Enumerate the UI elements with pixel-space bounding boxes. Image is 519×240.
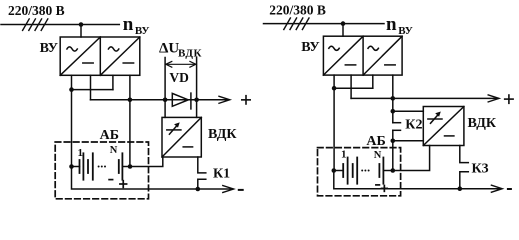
wire: ВУ output stub 4 down to battery plus (left) bbox=[129, 75, 131, 166]
rectifier ВУ (right): two-section box bbox=[323, 36, 402, 75]
node: battery plus junction (right) bbox=[391, 168, 396, 173]
svg-text:АБ: АБ bbox=[100, 128, 119, 143]
svg-text:N: N bbox=[110, 145, 118, 156]
svg-text:К3: К3 bbox=[472, 161, 489, 176]
contact К2 bbox=[393, 123, 401, 171]
svg-text:ВУ: ВУ bbox=[40, 41, 58, 56]
rectifier ВУ (left): two-section box bbox=[60, 37, 140, 75]
wire: ВУ output stub 3 (right) bbox=[372, 75, 374, 88]
wire: down to battery minus (right) bbox=[333, 88, 335, 170]
svg-text:ΔU: ΔU bbox=[159, 41, 179, 57]
svg-text:ВУ: ВУ bbox=[301, 40, 319, 55]
label: - (left output) bbox=[239, 189, 243, 191]
label: ΔU ВДК (voltage drop annotation) bbox=[159, 41, 202, 60]
label: n ВУ (right) bbox=[386, 14, 413, 37]
battery cell 2 (left) bbox=[88, 153, 93, 179]
wire: minus bus (left) bbox=[72, 167, 233, 190]
node: battery plus junction (left) bbox=[128, 164, 133, 169]
contact К1 bbox=[198, 157, 206, 189]
svg-text:1: 1 bbox=[341, 148, 347, 160]
wire: down to battery minus (left) bbox=[71, 90, 73, 167]
wire: ВУ output stub 3 (left) bbox=[112, 75, 114, 89]
svg-text:1: 1 bbox=[78, 147, 84, 159]
symbol: minus output arrow (left) bbox=[223, 186, 234, 193]
symbol: minus output arrow (right) bbox=[491, 185, 502, 192]
wire: drop from supply to ВУ (right) bbox=[342, 24, 344, 37]
wire: minus link between sections (right) bbox=[334, 87, 373, 89]
label: n ВУ (left, number of rectifiers) bbox=[123, 14, 150, 37]
wire: ВУ output stub 2 (left) bbox=[90, 75, 92, 100]
wire: battery plus to ВДК bottom stub (right) bbox=[393, 146, 430, 171]
wire: ВУ output stub 2 (right) bbox=[350, 75, 352, 98]
converter ВДК (left): regulated box bbox=[162, 117, 201, 157]
node: battery minus junction (right) bbox=[332, 168, 337, 173]
node: К3 to minus bus junction bbox=[458, 186, 463, 191]
label: - (right output) bbox=[508, 188, 511, 190]
wire: ВУ output stub 4 (right) bbox=[392, 75, 394, 98]
node: plus bus after diode bbox=[194, 98, 199, 103]
wire: minus bus (right) bbox=[334, 171, 501, 189]
label: + (right output) bbox=[505, 95, 513, 103]
wire: drop from supply to ВУ (left) bbox=[80, 25, 82, 38]
svg-text:ВДК: ВДК bbox=[178, 47, 202, 59]
node: minus link junction (left) bbox=[69, 87, 74, 92]
wire: left AC supply line bbox=[1, 24, 119, 26]
wire: minus link between sections (left) bbox=[72, 89, 113, 91]
node: battery minus junction (left) bbox=[69, 164, 74, 169]
wire: plus bus (left) bbox=[91, 99, 229, 101]
diode VD bbox=[172, 93, 191, 109]
svg-text:К2: К2 bbox=[405, 118, 422, 133]
wire: branch to ВДК lower input (right) bbox=[393, 140, 424, 142]
battery АБ (left): dashed enclosure bbox=[55, 142, 148, 199]
symbol: right supply phase hatch marks bbox=[284, 18, 309, 30]
node: plus bus junction at К2 branch (right) bbox=[391, 96, 396, 101]
converter ВДК (right): regulated box bbox=[423, 107, 464, 146]
contact К3 bbox=[460, 146, 469, 189]
wire: plus bus (right) bbox=[351, 97, 498, 99]
svg-text:ВДК: ВДК bbox=[208, 127, 237, 142]
battery АБ (right): dashed enclosure bbox=[318, 148, 401, 196]
symbol: plus output arrow (right) bbox=[488, 95, 499, 102]
svg-text:n: n bbox=[123, 14, 134, 35]
label: - + (cell polarity, left) bbox=[109, 180, 127, 188]
symbol: left supply phase hatch marks bbox=[23, 19, 48, 31]
node: plus bus before diode bbox=[163, 98, 168, 103]
svg-text:n: n bbox=[386, 14, 397, 35]
svg-text:220/380 В: 220/380 В bbox=[269, 3, 326, 18]
battery cell 1 (right) bbox=[343, 158, 347, 184]
node: minus link junction (right) bbox=[332, 86, 337, 91]
wire: ВУ output stub 1 (right) bbox=[333, 75, 335, 88]
battery cell 2 (right) bbox=[353, 158, 358, 184]
battery cell 1 (left) bbox=[80, 153, 84, 179]
svg-text:К1: К1 bbox=[213, 166, 230, 181]
wire: battery plus to ВДК bottom stub (left) bbox=[130, 157, 163, 167]
wire: bus down to К2 and ВДК branch (right) bbox=[392, 98, 394, 122]
symbol: ellipsis between cells (left) bbox=[98, 166, 106, 168]
svg-text:220/380 В: 220/380 В bbox=[8, 3, 65, 18]
wire: diode bracket left vertical bbox=[164, 58, 166, 118]
svg-text:ВДК: ВДК bbox=[468, 116, 497, 131]
wire: ВУ left output stub 1 (left) bbox=[71, 75, 73, 89]
node: left supply junction bbox=[79, 22, 84, 27]
wire: branch to ВДК input (right) bbox=[393, 110, 424, 112]
symbol: ellipsis between cells (right) bbox=[361, 170, 369, 172]
battery cell N (right) bbox=[379, 158, 383, 184]
wire: battery plus lead (left) bbox=[122, 166, 130, 168]
svg-text:VD: VD bbox=[169, 70, 189, 85]
battery cell N (left) bbox=[119, 153, 123, 179]
wire: right AC supply line bbox=[264, 23, 385, 25]
symbol: plus output arrow (left) bbox=[219, 96, 230, 103]
symbol: dimension double arrow for ΔU bbox=[166, 61, 196, 67]
node: right supply junction bbox=[341, 21, 346, 26]
wire: battery minus lead (left) bbox=[72, 166, 80, 168]
label: - + (cell polarity, right) bbox=[376, 185, 387, 191]
node: ВДК input branch junction (right) bbox=[391, 109, 396, 114]
label: + (left output) bbox=[242, 96, 250, 104]
svg-text:ВУ: ВУ bbox=[135, 25, 150, 37]
wire: diode bracket right vertical bbox=[196, 58, 198, 118]
node: plus bus / battery branch junction (left) bbox=[128, 98, 133, 103]
wire: battery plus lead (right) bbox=[383, 170, 392, 172]
svg-text:N: N bbox=[374, 150, 382, 161]
node: К1 to minus bus junction bbox=[196, 187, 201, 192]
svg-text:ВУ: ВУ bbox=[398, 25, 413, 37]
wire: battery minus lead (right) bbox=[334, 170, 343, 172]
node: ВДК lower input branch junction (right) bbox=[391, 139, 396, 144]
